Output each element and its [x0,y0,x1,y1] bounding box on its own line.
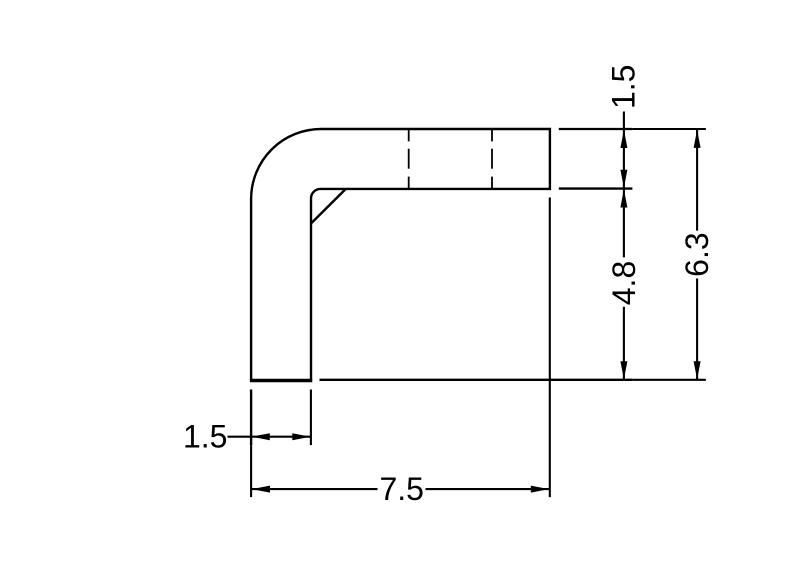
svg-text:6.3: 6.3 [679,232,715,276]
hidden dashed line left [408,130,410,189]
svg-text:1.5: 1.5 [605,65,641,109]
svg-text:4.8: 4.8 [606,261,642,305]
chamfer line at inner corner [312,189,346,223]
dimension 1.5 bottom left: right arrow [292,433,310,440]
dimension 1.5 top right: up arrow [620,130,627,148]
dimension 7.5: line right segment [426,488,550,490]
part bottom edge [250,379,312,381]
extension line bottom mid vertical [310,390,312,446]
dimension 1.5 top right: down arrow [620,170,627,188]
extension line top right horizontal (doubled segment) [559,128,633,130]
dimension 6.3: line lower segment [696,279,698,380]
dimension 4.8: down arrow [620,361,627,379]
part outline (L-profile with rounded outer corner) [251,129,550,381]
extension line bottom left vertical [250,390,252,446]
svg-text:1.5: 1.5 [183,418,227,454]
dimension 4.8: up arrow [620,189,627,207]
dimension 1.5 bottom left: left arrow [252,433,270,440]
dimension 7.5: line left segment [251,488,377,490]
hidden dashed line right [491,130,493,189]
dimension 6.3: down arrow [694,361,701,379]
dimension 7.5: right arrow [531,486,549,493]
dimension 4.8: line lower segment [623,307,625,380]
dimension 1.5 top right: line [623,112,625,189]
dimension 1.5 bottom left: leader and line [228,436,311,438]
dimension 4.8: line upper segment [623,189,625,258]
dimension 7.5: left arrow [252,486,270,493]
dimension 6.3: up arrow [694,130,701,148]
svg-text:7.5: 7.5 [379,471,423,507]
extension line mid right horizontal [559,187,633,189]
dimension 6.3: line upper segment [696,129,698,230]
extension line bottom horizontal [320,379,633,381]
extension line right vertical for 7.5 [549,198,551,498]
